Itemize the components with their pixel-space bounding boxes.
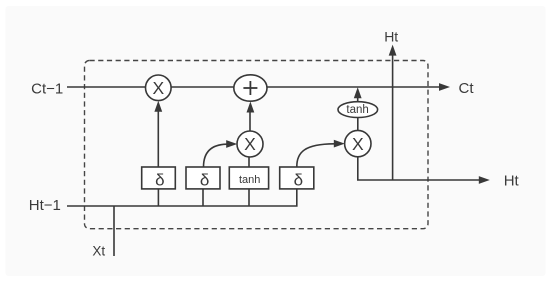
svg-text:Ht: Ht [384, 29, 398, 45]
svg-text:X: X [352, 134, 364, 154]
svg-text:Ht: Ht [504, 173, 520, 190]
svg-text:X: X [244, 134, 256, 154]
svg-text:Ht−1: Ht−1 [29, 197, 61, 214]
svg-text:tanh: tanh [346, 104, 368, 116]
svg-text:δ: δ [294, 170, 303, 189]
svg-text:Ct−1: Ct−1 [31, 81, 63, 98]
svg-text:Ct: Ct [459, 80, 475, 97]
svg-text:Xt: Xt [92, 244, 105, 259]
svg-text:X: X [152, 78, 164, 98]
svg-text:tanh: tanh [239, 174, 260, 186]
svg-text:δ: δ [200, 170, 209, 189]
svg-text:δ: δ [155, 170, 164, 189]
